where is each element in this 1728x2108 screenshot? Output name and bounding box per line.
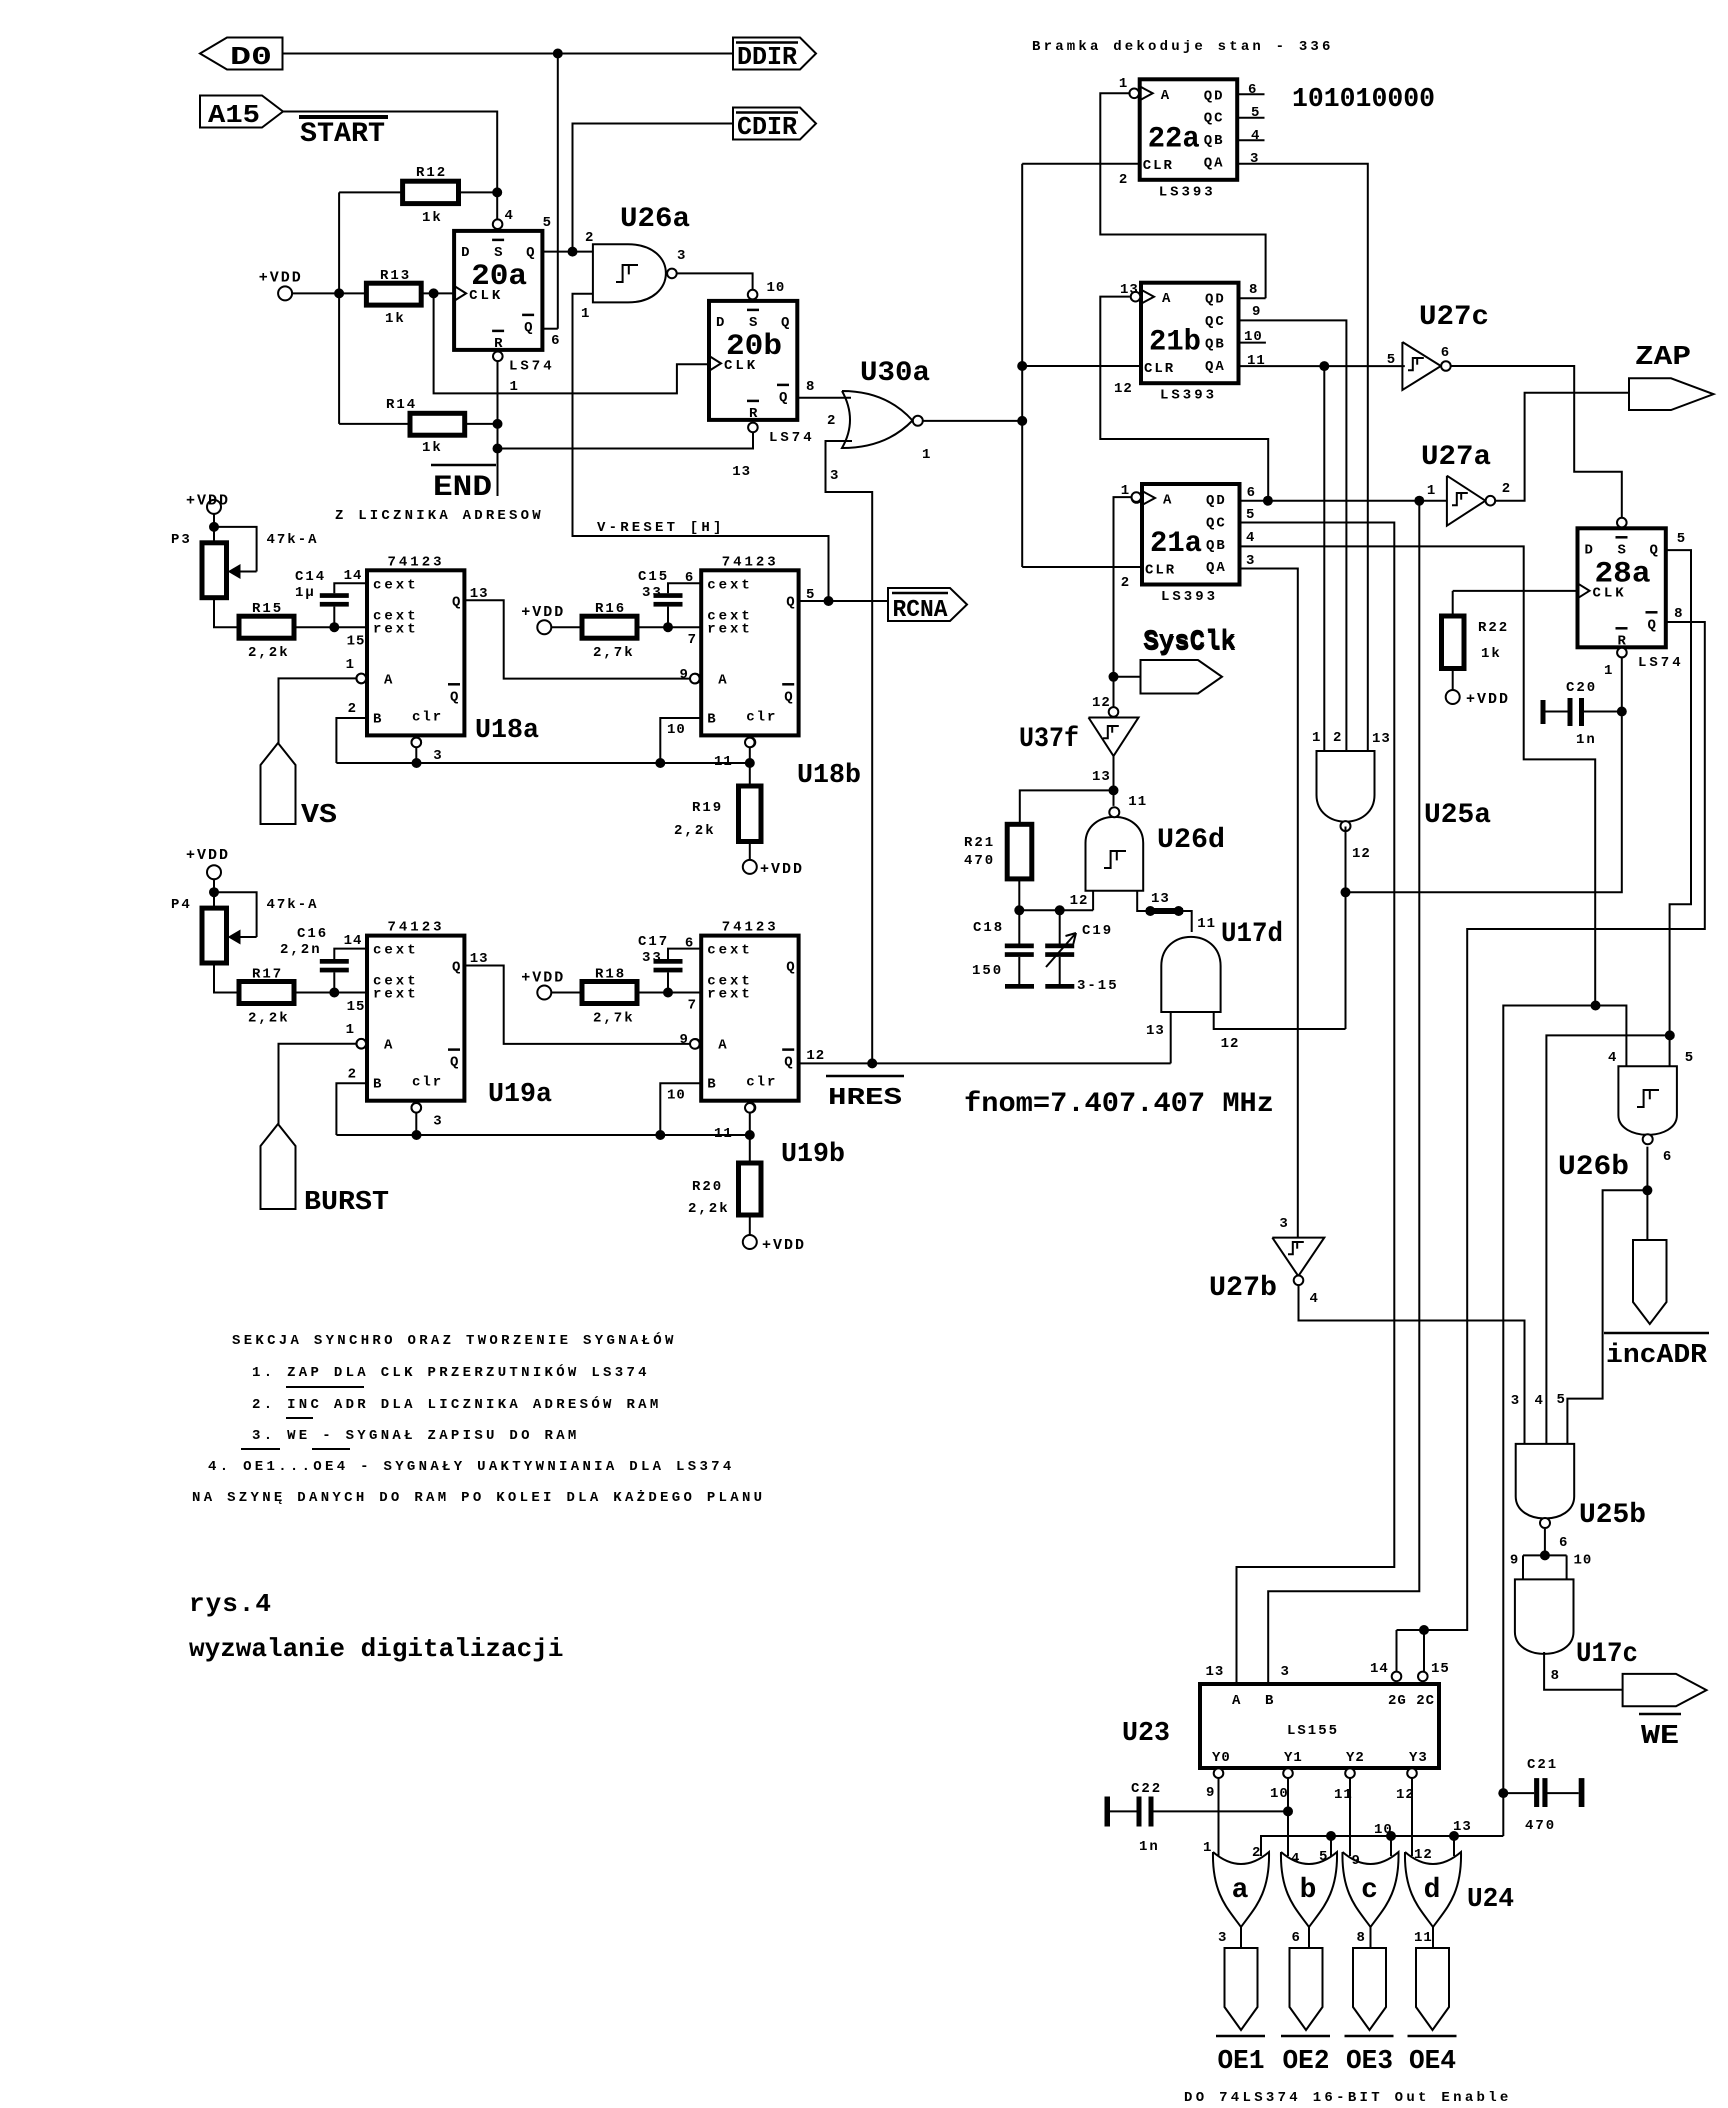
- svg-text:15: 15: [1431, 1661, 1450, 1677]
- svg-text:5: 5: [1685, 1050, 1694, 1066]
- svg-text:Q: Q: [450, 1055, 458, 1071]
- svg-text:C22: C22: [1131, 1781, 1162, 1797]
- svg-text:U26a: U26a: [620, 204, 690, 235]
- svg-text:START: START: [300, 119, 385, 150]
- svg-text:4: 4: [1251, 128, 1260, 144]
- svg-text:QC: QC: [1205, 314, 1226, 330]
- svg-text:2,7k: 2,7k: [593, 1011, 635, 1027]
- svg-text:CLK: CLK: [469, 288, 503, 304]
- svg-text:B: B: [1265, 1693, 1274, 1709]
- svg-text:8: 8: [1249, 282, 1258, 298]
- svg-text:SEKCJA SYNCHRO ORAZ TWORZENIE: SEKCJA SYNCHRO ORAZ TWORZENIE SYGNAŁÓW: [232, 1331, 677, 1349]
- svg-text:R: R: [494, 336, 503, 352]
- svg-text:2,2k: 2,2k: [674, 823, 716, 839]
- svg-text:D: D: [1585, 542, 1593, 558]
- svg-text:R: R: [749, 406, 758, 422]
- svg-text:2: 2: [1502, 481, 1511, 497]
- svg-text:C19: C19: [1082, 923, 1113, 939]
- svg-text:Q: Q: [786, 960, 794, 976]
- svg-text:6: 6: [1663, 1149, 1672, 1165]
- svg-text:LS155: LS155: [1287, 1723, 1339, 1739]
- svg-text:2,2n: 2,2n: [280, 942, 322, 958]
- svg-text:2,2k: 2,2k: [688, 1201, 730, 1217]
- svg-text:Q: Q: [784, 1055, 792, 1071]
- svg-text:6: 6: [685, 936, 694, 952]
- svg-text:LS393: LS393: [1161, 589, 1218, 605]
- svg-text:cext: cext: [707, 943, 753, 959]
- svg-text:A: A: [1163, 493, 1172, 509]
- svg-text:2,7k: 2,7k: [593, 645, 635, 661]
- svg-text:LS74: LS74: [509, 359, 555, 375]
- svg-text:U24: U24: [1467, 1885, 1514, 1915]
- svg-text:fnom=7.407.407 MHz: fnom=7.407.407 MHz: [964, 1089, 1274, 1120]
- svg-text:S: S: [1618, 542, 1626, 558]
- svg-text:1: 1: [581, 306, 590, 322]
- svg-text:U26b: U26b: [1558, 1152, 1629, 1183]
- svg-text:A: A: [384, 672, 393, 688]
- svg-text:+VDD: +VDD: [259, 270, 303, 287]
- svg-text:6: 6: [1248, 82, 1257, 98]
- svg-text:C17: C17: [638, 934, 669, 950]
- svg-text:Q: Q: [786, 594, 794, 610]
- svg-text:U17d: U17d: [1221, 919, 1283, 950]
- svg-text:R20: R20: [692, 1179, 723, 1195]
- svg-text:5: 5: [1251, 105, 1260, 121]
- svg-text:74123: 74123: [388, 920, 445, 936]
- svg-text:1n: 1n: [1576, 732, 1597, 748]
- svg-text:Y2: Y2: [1346, 1750, 1365, 1766]
- svg-text:+VDD: +VDD: [1466, 691, 1510, 708]
- svg-text:13: 13: [1372, 731, 1391, 747]
- svg-text:47k-A: 47k-A: [267, 532, 319, 548]
- svg-text:R17: R17: [252, 967, 283, 983]
- svg-text:A: A: [718, 672, 727, 688]
- svg-text:7: 7: [688, 632, 697, 648]
- svg-text:1k: 1k: [422, 440, 443, 456]
- svg-text:OE4: OE4: [1409, 2047, 1456, 2077]
- svg-text:2: 2: [1119, 172, 1128, 188]
- svg-text:11: 11: [1197, 916, 1216, 932]
- svg-text:QD: QD: [1205, 292, 1226, 308]
- svg-text:CLR: CLR: [1145, 563, 1176, 579]
- svg-text:12: 12: [1070, 893, 1089, 909]
- svg-text:1k: 1k: [1481, 646, 1502, 662]
- svg-text:10: 10: [1244, 329, 1263, 345]
- svg-text:QB: QB: [1204, 133, 1225, 149]
- svg-text:4: 4: [505, 208, 514, 224]
- svg-text:C21: C21: [1527, 1757, 1558, 1773]
- svg-text:OE2: OE2: [1283, 2047, 1330, 2077]
- svg-text:wyzwalanie digitalizacji: wyzwalanie digitalizacji: [189, 1634, 563, 1664]
- svg-text:13: 13: [1206, 1664, 1225, 1680]
- svg-text:CLR: CLR: [1143, 158, 1174, 174]
- svg-text:10: 10: [667, 1088, 686, 1104]
- svg-text:c: c: [1361, 1875, 1378, 1906]
- svg-text:S: S: [494, 245, 502, 261]
- svg-text:10: 10: [667, 722, 686, 738]
- svg-text:3: 3: [830, 468, 839, 484]
- svg-text:Q: Q: [524, 320, 532, 336]
- svg-text:9: 9: [680, 1032, 689, 1048]
- svg-text:2,2k: 2,2k: [248, 645, 290, 661]
- svg-text:3: 3: [1250, 151, 1259, 167]
- svg-text:clr: clr: [412, 1075, 443, 1091]
- svg-text:5: 5: [1319, 1849, 1328, 1865]
- svg-text:22a: 22a: [1148, 122, 1200, 156]
- svg-text:R19: R19: [692, 800, 723, 816]
- svg-text:R21: R21: [964, 835, 995, 851]
- svg-text:3: 3: [1246, 553, 1255, 569]
- svg-text:13: 13: [1120, 282, 1139, 298]
- svg-text:Q: Q: [1650, 542, 1658, 558]
- svg-text:Q: Q: [784, 689, 792, 705]
- svg-text:cext: cext: [707, 577, 753, 593]
- svg-text:CLK: CLK: [1593, 585, 1627, 601]
- svg-text:1: 1: [1119, 76, 1128, 92]
- svg-text:rext: rext: [373, 987, 419, 1003]
- svg-text:1. ZAP DLA CLK PRZERZUTNIKÓW L: 1. ZAP DLA CLK PRZERZUTNIKÓW LS374: [252, 1363, 650, 1381]
- svg-text:13: 13: [732, 464, 751, 480]
- svg-text:R12: R12: [416, 165, 447, 181]
- svg-text:1: 1: [1203, 1840, 1212, 1856]
- svg-text:A: A: [1232, 1693, 1241, 1709]
- svg-text:6: 6: [1559, 1535, 1568, 1551]
- svg-text:U18a: U18a: [475, 716, 539, 746]
- svg-text:CDIR: CDIR: [737, 112, 797, 142]
- svg-text:3: 3: [433, 748, 442, 764]
- svg-text:12: 12: [1221, 1036, 1240, 1052]
- svg-text:11: 11: [714, 1126, 733, 1142]
- svg-text:C20: C20: [1566, 680, 1597, 696]
- svg-text:15: 15: [347, 999, 366, 1015]
- svg-text:1: 1: [346, 657, 355, 673]
- svg-text:Q: Q: [526, 245, 534, 261]
- svg-text:R22: R22: [1478, 620, 1509, 636]
- svg-text:11: 11: [1128, 794, 1147, 810]
- svg-text:U25a: U25a: [1424, 800, 1491, 831]
- svg-text:A: A: [384, 1038, 393, 1054]
- svg-text:+VDD: +VDD: [762, 1237, 806, 1254]
- svg-text:+VDD: +VDD: [521, 604, 565, 621]
- svg-text:1µ: 1µ: [295, 585, 316, 601]
- svg-text:+VDD: +VDD: [186, 847, 230, 864]
- svg-text:10: 10: [767, 280, 786, 296]
- svg-text:8: 8: [1357, 1930, 1366, 1946]
- svg-text:rys.4: rys.4: [189, 1589, 272, 1619]
- svg-text:A15: A15: [208, 100, 260, 130]
- svg-text:Q: Q: [781, 315, 789, 331]
- svg-text:R16: R16: [595, 601, 626, 617]
- svg-text:11: 11: [714, 754, 733, 770]
- svg-text:6: 6: [1441, 345, 1450, 361]
- svg-text:NA SZYNĘ DANYCH DO RAM PO KOLE: NA SZYNĘ DANYCH DO RAM PO KOLEI DLA KAŻD…: [192, 1489, 765, 1506]
- svg-text:R15: R15: [252, 601, 283, 617]
- svg-text:12: 12: [1352, 846, 1371, 862]
- svg-text:clr: clr: [746, 709, 777, 725]
- svg-text:8: 8: [1674, 606, 1683, 622]
- svg-text:CLR: CLR: [1144, 361, 1175, 377]
- svg-text:QB: QB: [1206, 538, 1227, 554]
- svg-text:14: 14: [344, 933, 363, 949]
- svg-text:Z LICZNIKA ADRESOW: Z LICZNIKA ADRESOW: [335, 508, 544, 524]
- svg-text:clr: clr: [412, 709, 443, 725]
- svg-text:2: 2: [585, 230, 594, 246]
- svg-text:V-RESET [H]: V-RESET [H]: [597, 520, 725, 536]
- svg-text:QD: QD: [1206, 493, 1227, 509]
- svg-text:U25b: U25b: [1579, 1500, 1646, 1531]
- svg-text:3: 3: [1218, 1930, 1227, 1946]
- svg-text:VS: VS: [301, 801, 337, 831]
- svg-text:74123: 74123: [722, 554, 779, 570]
- svg-text:d: d: [1424, 1875, 1441, 1906]
- svg-text:RCNA: RCNA: [893, 597, 949, 624]
- svg-text:13: 13: [1146, 1023, 1165, 1039]
- svg-text:2: 2: [1333, 730, 1342, 746]
- svg-text:B: B: [373, 1077, 382, 1093]
- svg-text:BURST: BURST: [304, 1188, 389, 1218]
- svg-text:U18b: U18b: [797, 761, 861, 791]
- svg-text:14: 14: [1370, 1661, 1389, 1677]
- svg-text:cext: cext: [373, 577, 419, 593]
- svg-text:74123: 74123: [388, 554, 445, 570]
- svg-text:a: a: [1232, 1875, 1249, 1906]
- svg-text:rext: rext: [707, 987, 753, 1003]
- svg-text:1k: 1k: [385, 311, 406, 327]
- svg-text:4: 4: [1608, 1050, 1617, 1066]
- svg-text:1: 1: [510, 379, 519, 395]
- svg-text:8: 8: [1551, 1668, 1560, 1684]
- svg-text:U26d: U26d: [1157, 825, 1225, 856]
- svg-text:U27b: U27b: [1209, 1273, 1277, 1304]
- svg-text:CLK: CLK: [724, 358, 758, 374]
- svg-text:13: 13: [1092, 769, 1111, 785]
- svg-text:R18: R18: [595, 967, 626, 983]
- svg-text:S: S: [749, 315, 757, 331]
- svg-text:2G 2C: 2G 2C: [1388, 1693, 1435, 1709]
- svg-text:LS74: LS74: [769, 430, 815, 446]
- svg-text:21b: 21b: [1149, 326, 1201, 360]
- svg-text:12: 12: [1114, 381, 1133, 397]
- svg-text:8: 8: [806, 379, 815, 395]
- svg-text:12: 12: [806, 1048, 825, 1064]
- svg-text:END: END: [433, 471, 492, 505]
- svg-text:13: 13: [1151, 891, 1170, 907]
- svg-text:12: 12: [1414, 1847, 1433, 1863]
- svg-text:DO 74LS374 16-BIT Out Enable: DO 74LS374 16-BIT Out Enable: [1184, 2090, 1512, 2103]
- svg-text:incADR: incADR: [1606, 1341, 1708, 1371]
- svg-text:13: 13: [470, 951, 489, 967]
- svg-text:1k: 1k: [422, 210, 443, 226]
- svg-text:Q: Q: [779, 390, 787, 406]
- svg-text:P4: P4: [171, 897, 192, 913]
- svg-text:11: 11: [1414, 1930, 1433, 1946]
- svg-text:3. WE - SYGNAŁ ZAPISU DO RAM: 3. WE - SYGNAŁ ZAPISU DO RAM: [252, 1428, 580, 1444]
- svg-text:A: A: [718, 1038, 727, 1054]
- svg-text:2: 2: [348, 1067, 357, 1083]
- svg-text:33: 33: [642, 585, 663, 601]
- svg-text:U30a: U30a: [860, 358, 930, 389]
- svg-text:1n: 1n: [1139, 1839, 1160, 1855]
- svg-text:5: 5: [1677, 531, 1686, 547]
- svg-text:R14: R14: [386, 397, 417, 413]
- svg-text:Y1: Y1: [1284, 1750, 1303, 1766]
- svg-text:2: 2: [348, 701, 357, 717]
- svg-text:D0: D0: [230, 42, 272, 72]
- svg-text:rext: rext: [707, 621, 753, 637]
- svg-text:C14: C14: [295, 569, 326, 585]
- svg-text:3: 3: [1279, 1216, 1288, 1232]
- svg-text:3: 3: [1281, 1664, 1290, 1680]
- svg-text:B: B: [707, 711, 716, 727]
- svg-text:QC: QC: [1204, 111, 1225, 127]
- svg-text:101010000: 101010000: [1292, 85, 1435, 115]
- svg-text:10: 10: [1574, 1553, 1593, 1569]
- svg-text:QA: QA: [1206, 560, 1227, 576]
- svg-text:150: 150: [972, 963, 1003, 979]
- svg-text:U27c: U27c: [1419, 302, 1489, 333]
- svg-text:Q: Q: [450, 689, 458, 705]
- svg-text:QC: QC: [1206, 515, 1227, 531]
- svg-text:2: 2: [1121, 575, 1130, 591]
- svg-text:9: 9: [1252, 304, 1261, 320]
- svg-text:11: 11: [1247, 353, 1266, 369]
- svg-text:D: D: [461, 245, 469, 261]
- svg-text:4: 4: [1291, 1851, 1300, 1867]
- svg-text:WE: WE: [1641, 1722, 1679, 1752]
- svg-text:1: 1: [346, 1022, 355, 1038]
- svg-text:5: 5: [1557, 1392, 1566, 1408]
- svg-text:b: b: [1300, 1875, 1317, 1906]
- svg-text:A: A: [1161, 88, 1170, 104]
- svg-text:C16: C16: [297, 926, 328, 942]
- svg-text:HRES: HRES: [828, 1085, 902, 1112]
- svg-text:10: 10: [1270, 1786, 1289, 1802]
- svg-text:10: 10: [1374, 1822, 1393, 1838]
- svg-text:OE1: OE1: [1218, 2047, 1265, 2077]
- svg-text:6: 6: [685, 570, 694, 586]
- svg-text:2. INC ADR DLA LICZNIKA ADRESÓ: 2. INC ADR DLA LICZNIKA ADRESÓW RAM: [252, 1395, 662, 1413]
- svg-text:13: 13: [470, 586, 489, 602]
- svg-text:B: B: [707, 1077, 716, 1093]
- svg-text:QB: QB: [1205, 337, 1226, 353]
- svg-text:QD: QD: [1204, 88, 1225, 104]
- svg-text:LS393: LS393: [1160, 388, 1217, 404]
- svg-text:cext: cext: [373, 943, 419, 959]
- svg-text:Q: Q: [452, 960, 460, 976]
- svg-text:+VDD: +VDD: [760, 861, 804, 878]
- svg-text:1: 1: [1121, 483, 1130, 499]
- svg-text:2,2k: 2,2k: [248, 1011, 290, 1027]
- svg-text:5: 5: [1246, 507, 1255, 523]
- svg-text:3: 3: [677, 248, 686, 264]
- svg-text:Q: Q: [1648, 617, 1656, 633]
- svg-text:33: 33: [642, 950, 663, 966]
- svg-text:Q: Q: [452, 594, 460, 610]
- svg-text:13: 13: [1453, 1819, 1472, 1835]
- svg-text:5: 5: [1387, 352, 1396, 368]
- svg-text:SysClk: SysClk: [1144, 629, 1236, 659]
- svg-text:clr: clr: [746, 1075, 777, 1091]
- svg-text:+VDD: +VDD: [186, 493, 230, 510]
- svg-text:1: 1: [1427, 483, 1436, 499]
- svg-text:9: 9: [1510, 1553, 1519, 1569]
- svg-text:DDIR: DDIR: [737, 42, 797, 72]
- svg-text:4. OE1...OE4 - SYGNAŁY UAKTYWN: 4. OE1...OE4 - SYGNAŁY UAKTYWNIANIA DLA …: [208, 1459, 735, 1475]
- svg-text:A: A: [1162, 291, 1171, 307]
- svg-text:Y3: Y3: [1409, 1750, 1428, 1766]
- svg-text:U17c: U17c: [1576, 1639, 1638, 1670]
- svg-text:9: 9: [680, 667, 689, 683]
- svg-text:rext: rext: [373, 621, 419, 637]
- svg-text:P3: P3: [171, 532, 192, 548]
- svg-text:LS393: LS393: [1159, 184, 1216, 200]
- svg-text:7: 7: [688, 998, 697, 1014]
- svg-text:+VDD: +VDD: [521, 969, 565, 986]
- svg-text:R13: R13: [380, 268, 411, 284]
- svg-text:2: 2: [827, 413, 836, 429]
- svg-text:3: 3: [433, 1114, 442, 1130]
- svg-text:4: 4: [1246, 530, 1255, 546]
- svg-text:D: D: [716, 315, 724, 331]
- svg-text:470: 470: [1525, 1818, 1556, 1834]
- svg-text:12: 12: [1396, 1787, 1415, 1803]
- svg-text:47k-A: 47k-A: [267, 897, 319, 913]
- svg-text:U19a: U19a: [488, 1080, 552, 1110]
- svg-text:LS74: LS74: [1638, 655, 1684, 671]
- svg-text:3-15: 3-15: [1077, 978, 1119, 994]
- svg-text:QA: QA: [1205, 359, 1226, 375]
- svg-text:15: 15: [347, 634, 366, 650]
- svg-text:6: 6: [1292, 1930, 1301, 1946]
- svg-text:U37f: U37f: [1019, 724, 1079, 755]
- svg-text:QA: QA: [1204, 156, 1225, 172]
- svg-text:C15: C15: [638, 569, 669, 585]
- svg-text:U27a: U27a: [1421, 442, 1491, 473]
- svg-text:1: 1: [1604, 663, 1613, 679]
- svg-text:6: 6: [551, 333, 560, 349]
- svg-text:4: 4: [1535, 1393, 1544, 1409]
- svg-text:11: 11: [1334, 1787, 1353, 1803]
- svg-text:9: 9: [1352, 1853, 1361, 1869]
- svg-text:4: 4: [1310, 1291, 1319, 1307]
- svg-text:21a: 21a: [1150, 527, 1202, 561]
- svg-text:C18: C18: [973, 920, 1004, 936]
- svg-text:1: 1: [1312, 730, 1321, 746]
- svg-text:3: 3: [1511, 1393, 1520, 1409]
- svg-text:74123: 74123: [722, 920, 779, 936]
- svg-text:5: 5: [806, 587, 815, 603]
- svg-text:1: 1: [922, 447, 931, 463]
- svg-text:U19b: U19b: [781, 1140, 845, 1170]
- svg-text:14: 14: [344, 568, 363, 584]
- svg-text:9: 9: [1206, 1785, 1215, 1801]
- svg-text:5: 5: [543, 215, 552, 231]
- svg-text:6: 6: [1247, 485, 1256, 501]
- svg-text:B: B: [373, 711, 382, 727]
- svg-text:Y0: Y0: [1212, 1750, 1231, 1766]
- svg-text:Bramka dekoduje stan - 336: Bramka dekoduje stan - 336: [1032, 39, 1334, 55]
- svg-text:ZAP: ZAP: [1635, 343, 1691, 373]
- svg-text:U23: U23: [1122, 1719, 1170, 1749]
- svg-text:12: 12: [1092, 695, 1111, 711]
- svg-text:470: 470: [964, 853, 995, 869]
- svg-text:OE3: OE3: [1346, 2047, 1393, 2077]
- svg-text:2: 2: [1252, 1845, 1261, 1861]
